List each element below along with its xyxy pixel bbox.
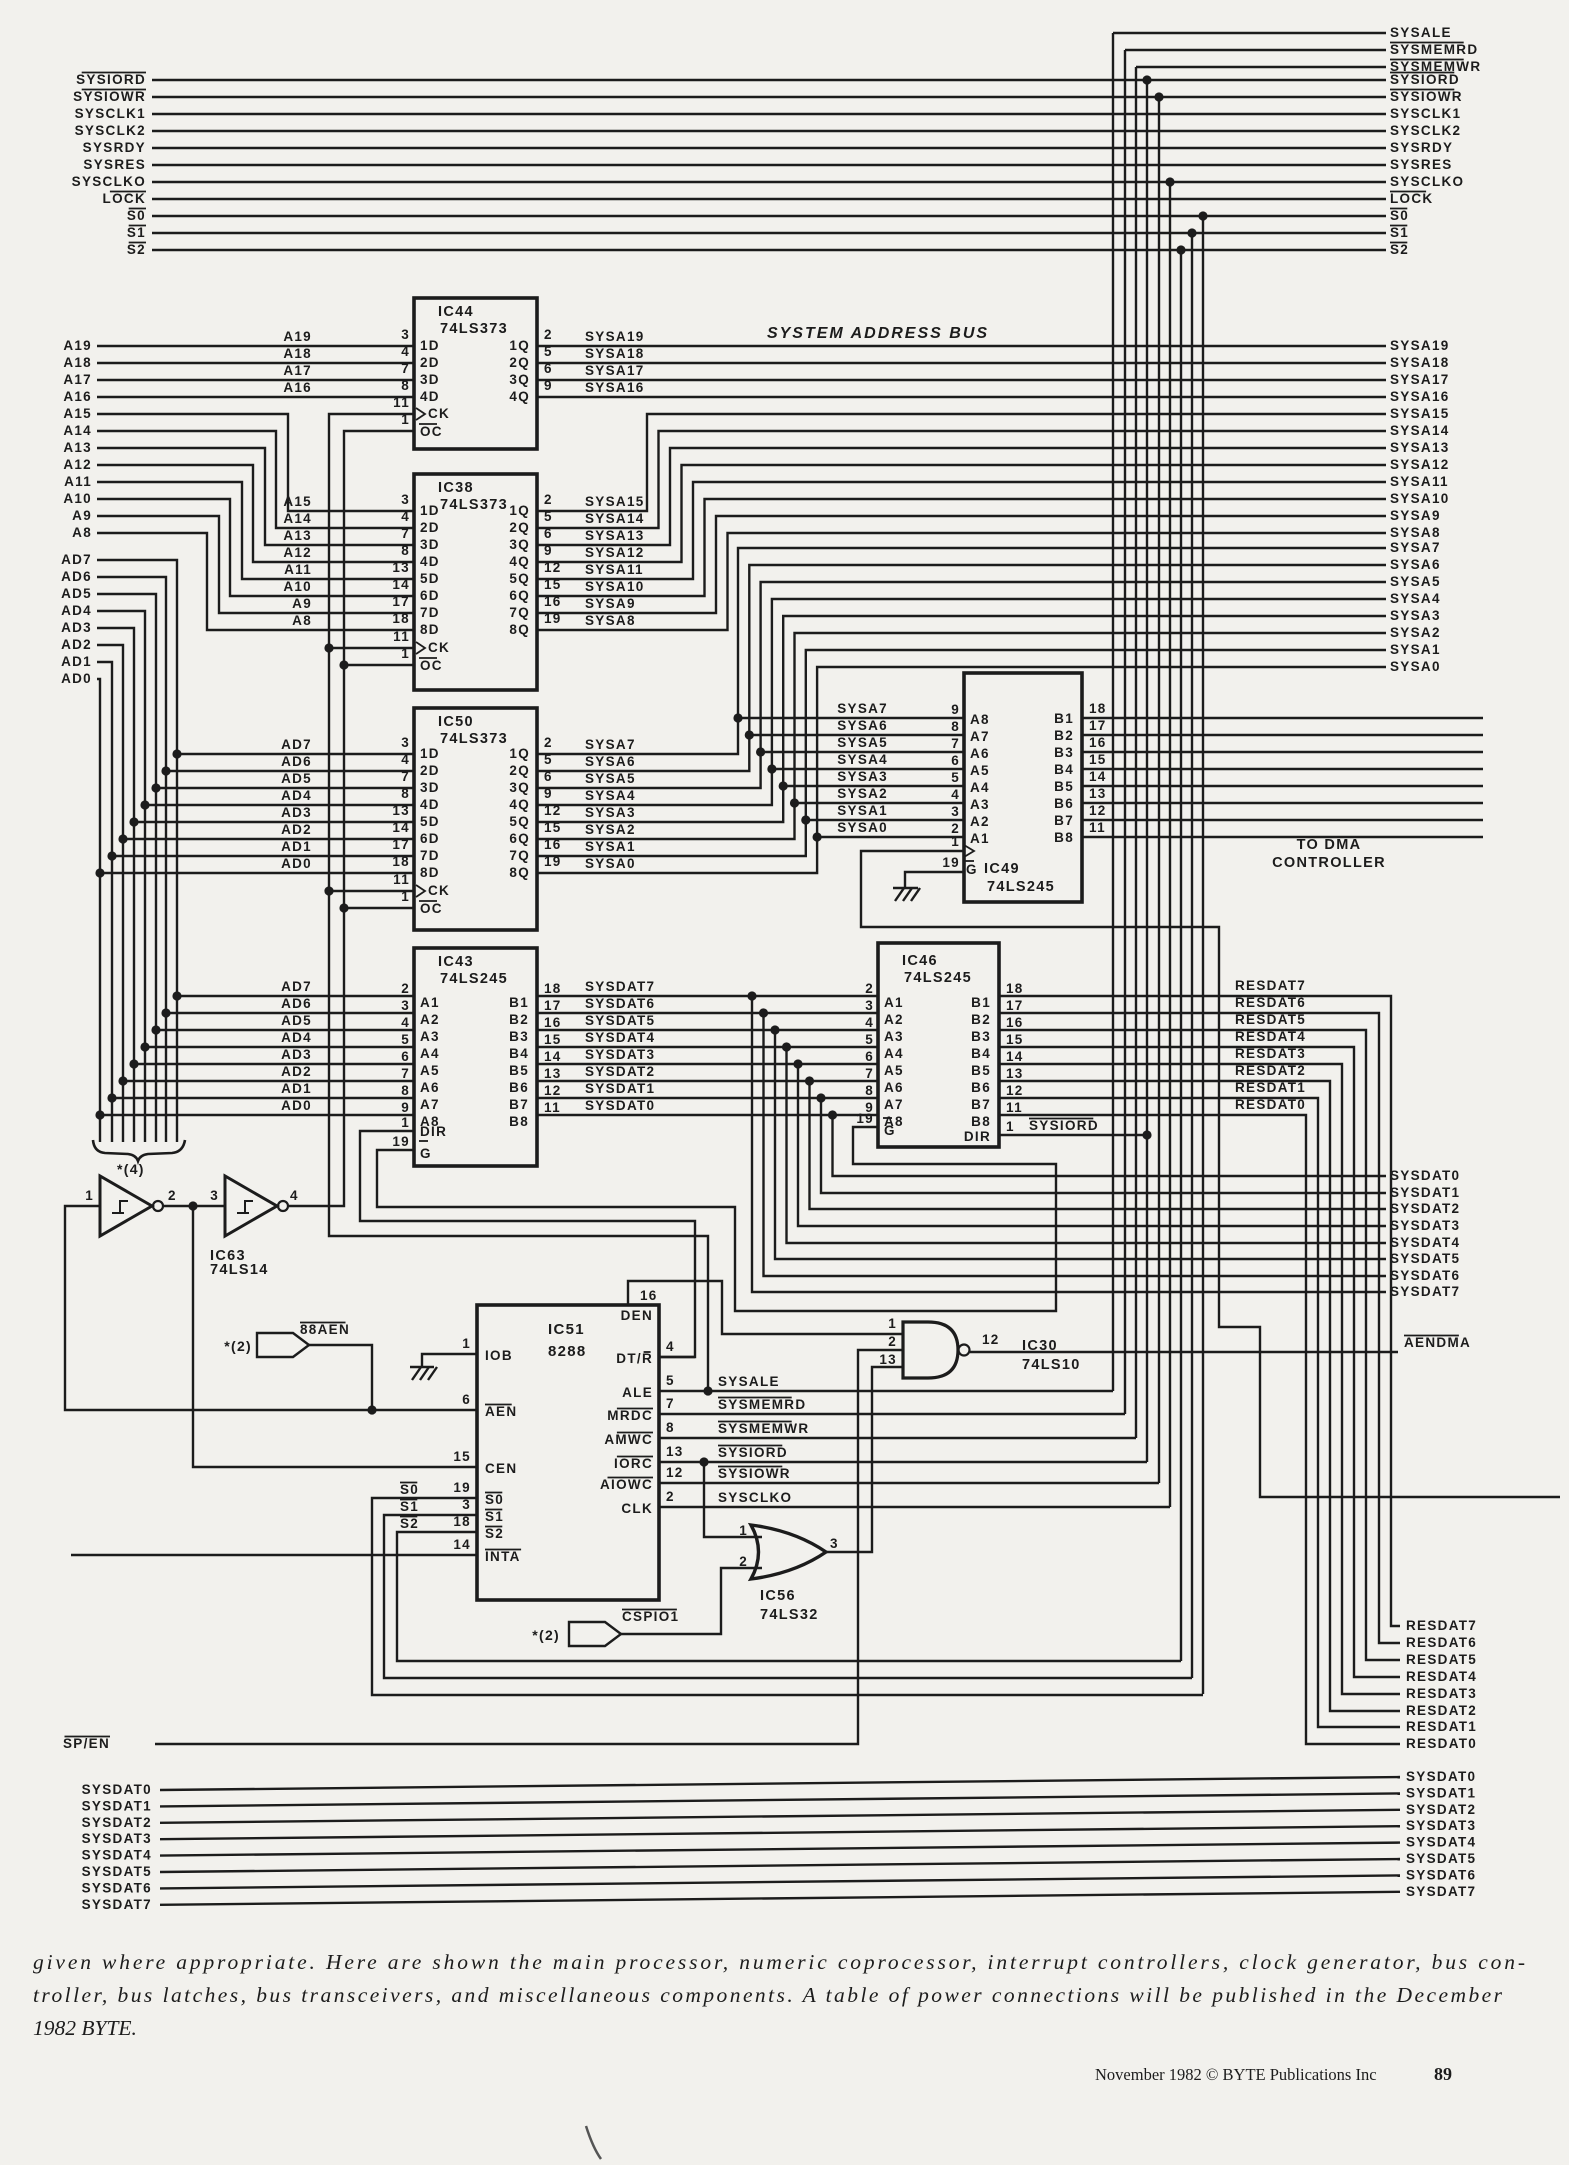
svg-text:B8: B8 [971,1114,991,1129]
svg-text:SYSDAT1: SYSDAT1 [585,1081,655,1096]
wire SYSA5 [537,582,1386,788]
wire IC49 B1 to DMA [1082,717,1483,719]
svg-text:15: 15 [1089,752,1107,767]
svg-text:SYSDAT2: SYSDAT2 [1406,1802,1476,1817]
wire SYSA11 [537,482,1386,579]
wire SYSDAT2 bottom bus [160,1810,1400,1823]
svg-text:B7: B7 [1054,813,1074,828]
svg-text:9: 9 [951,702,960,717]
svg-text:B2: B2 [1054,728,1074,743]
svg-text:B7: B7 [971,1097,991,1112]
svg-text:SYSALE: SYSALE [718,1374,780,1389]
svg-text:14: 14 [1089,769,1107,784]
wire SYSA18 [537,362,1386,364]
svg-text:OC: OC [420,658,443,673]
svg-text:B3: B3 [509,1029,529,1044]
wire SYSDAT6 bottom bus [160,1875,1400,1888]
svg-text:IC38: IC38 [438,480,474,496]
wire IC49 DIR long route [861,851,1560,1497]
wire SYSDAT0 [537,1114,878,1116]
svg-text:1Q: 1Q [509,503,530,518]
junction SYSA5 to IC49 [756,747,765,756]
svg-text:A19: A19 [63,338,92,353]
wire AD0 to IC50 [95,868,104,877]
svg-text:SYSDAT2: SYSDAT2 [82,1815,152,1830]
svg-text:13: 13 [1089,786,1107,801]
svg-text:SYSA12: SYSA12 [585,545,645,560]
svg-text:3: 3 [951,804,960,819]
svg-text:1D: 1D [420,338,440,353]
svg-text:RESDAT7: RESDAT7 [1406,1618,1477,1633]
wire S2 top bus [152,249,1386,251]
svg-text:A8: A8 [292,613,312,628]
wire SYSA4 [537,599,1386,805]
svg-text:SYSDAT6: SYSDAT6 [1390,1268,1460,1283]
svg-text:SYSA0: SYSA0 [585,856,636,871]
svg-text:AD0: AD0 [61,671,92,686]
svg-text:3: 3 [210,1188,219,1203]
wire IC49 G to ground [905,872,964,888]
svg-text:13: 13 [544,1066,562,1081]
svg-text:3: 3 [830,1536,839,1551]
wire SYSIOWR vertical [1158,97,1160,1483]
svg-text:S1: S1 [485,1509,504,1524]
svg-text:8: 8 [401,1083,410,1098]
svg-text:1982 BYTE.: 1982 BYTE. [33,2016,137,2040]
svg-text:16: 16 [544,1015,562,1030]
svg-text:2: 2 [865,981,874,996]
wire RESDAT3 [999,1064,1400,1694]
svg-text:A1: A1 [884,995,904,1010]
svg-text:AD1: AD1 [281,1081,312,1096]
svg-text:SYSDAT2: SYSDAT2 [585,1064,655,1079]
svg-text:*(2): *(2) [224,1338,252,1354]
wire AD2 to IC43 [118,1076,127,1085]
brace *(4) under AD bus [93,1140,185,1161]
junction SYSA0 to IC49 [813,832,822,841]
svg-text:1: 1 [951,834,960,849]
wire SYSA7 [537,548,1386,754]
svg-text:3: 3 [401,327,410,342]
svg-text:SYSDAT7: SYSDAT7 [1406,1884,1476,1899]
svg-text:11: 11 [393,629,410,644]
svg-text:5Q: 5Q [509,814,530,829]
wire SYSMEMRD (MRDC) [659,1413,1125,1415]
svg-text:SYSA0: SYSA0 [1390,659,1441,674]
wire RESDAT7 [999,996,1400,1626]
latch IC38 [414,474,537,690]
svg-text:SYSIORD: SYSIORD [76,72,146,87]
wire IC46 DIR = SYSIORD [999,1134,1147,1136]
wire SYSA0 [537,667,1386,873]
svg-text:INTA: INTA [485,1549,521,1564]
connector CSPIO1 [569,1622,621,1646]
svg-text:SYSDAT7: SYSDAT7 [82,1897,152,1912]
svg-text:AD2: AD2 [281,822,312,837]
svg-text:MRDC: MRDC [607,1408,653,1423]
svg-text:SYSA8: SYSA8 [585,613,636,628]
svg-text:SYSA5: SYSA5 [1390,574,1441,589]
svg-text:SYSDAT5: SYSDAT5 [82,1864,152,1879]
wire LOCK top bus [152,198,1386,200]
svg-text:8: 8 [401,378,410,393]
svg-text:SYSDAT6: SYSDAT6 [1406,1867,1476,1882]
svg-text:B5: B5 [971,1063,991,1078]
svg-text:A5: A5 [420,1063,440,1078]
svg-text:SYSA1: SYSA1 [1390,642,1441,657]
svg-text:RESDAT0: RESDAT0 [1406,1736,1477,1751]
svg-text:AD5: AD5 [281,771,312,786]
wire SYSALE (ALE) [659,1390,1113,1392]
svg-text:8: 8 [865,1083,874,1098]
svg-text:DEN: DEN [621,1308,653,1323]
svg-text:SYSA13: SYSA13 [585,528,645,543]
svg-text:S1: S1 [1390,225,1409,240]
svg-text:6: 6 [865,1049,874,1064]
svg-text:SYSIORD: SYSIORD [1390,72,1460,87]
wire IC49 B2 to DMA [1082,734,1483,736]
svg-text:19: 19 [856,1111,874,1126]
wire AD7 to IC43 [172,991,181,1000]
svg-text:IC43: IC43 [438,954,474,970]
wire CSPIO1 to OR pin2 [621,1568,762,1634]
wire AENDMA output [970,1351,1398,1353]
svg-text:SYSDAT2: SYSDAT2 [1390,1201,1460,1216]
svg-text:1D: 1D [420,746,440,761]
svg-text:A5: A5 [884,1063,904,1078]
wire SYSCLKO (CLK) [659,1506,1170,1508]
svg-text:8288: 8288 [548,1343,587,1360]
wire SYSDAT3 [537,1063,878,1065]
svg-text:11: 11 [1089,820,1106,835]
svg-text:74LS373: 74LS373 [440,497,508,513]
svg-text:SYSIORD: SYSIORD [1029,1118,1099,1133]
svg-text:A13: A13 [283,528,312,543]
svg-text:8Q: 8Q [509,622,530,637]
svg-text:A8: A8 [970,712,990,727]
svg-text:IC51: IC51 [548,1321,585,1338]
svg-text:LOCK: LOCK [103,191,146,206]
svg-text:AEN: AEN [485,1404,517,1419]
svg-text:12: 12 [544,1083,562,1098]
svg-text:B1: B1 [971,995,991,1010]
svg-text:18: 18 [544,981,562,996]
svg-text:SYSDAT0: SYSDAT0 [1390,1168,1460,1183]
svg-text:A7: A7 [420,1097,440,1112]
svg-text:8D: 8D [420,622,440,637]
transceiver IC46 [878,943,999,1147]
svg-text:8: 8 [666,1420,675,1435]
svg-text:A2: A2 [970,814,990,829]
svg-text:5: 5 [401,1032,410,1047]
svg-text:8: 8 [951,719,960,734]
svg-text:AIOWC: AIOWC [600,1477,653,1492]
svg-text:SYSA9: SYSA9 [1390,508,1441,523]
svg-text:RESDAT4: RESDAT4 [1406,1669,1477,1684]
svg-text:given where appropriate. Here: given where appropriate. Here are shown … [33,1950,1525,1974]
inverter IC63a [100,1176,152,1236]
svg-text:18: 18 [453,1514,471,1529]
svg-text:7D: 7D [420,848,440,863]
svg-text:DIR: DIR [964,1129,991,1144]
svg-text:SYSDAT1: SYSDAT1 [1390,1185,1460,1200]
svg-text:B3: B3 [971,1029,991,1044]
svg-text:SYSA10: SYSA10 [585,579,645,594]
wire RESDAT6 [999,1013,1400,1643]
svg-text:1Q: 1Q [509,338,530,353]
svg-text:S2: S2 [127,242,146,257]
svg-text:3D: 3D [420,780,440,795]
svg-text:13: 13 [879,1352,897,1367]
svg-text:12: 12 [1089,803,1107,818]
svg-text:A7: A7 [970,729,990,744]
svg-text:G: G [420,1146,432,1161]
svg-text:3: 3 [865,998,874,1013]
wire IC49 B5 to DMA [1082,785,1483,787]
svg-text:74LS245: 74LS245 [987,879,1055,895]
svg-text:SYSA7: SYSA7 [585,737,636,752]
junction SYSA6 to IC49 [745,730,754,739]
or-gate IC56 [751,1525,826,1579]
svg-text:18: 18 [1006,981,1024,996]
wire SYSA10 [537,499,1386,596]
wire DEN to IC30 pin1 [628,1281,903,1334]
wire IOB to ground [422,1354,477,1367]
svg-text:1: 1 [85,1188,94,1203]
svg-text:7Q: 7Q [509,605,530,620]
svg-text:RESDAT4: RESDAT4 [1235,1029,1306,1044]
svg-text:SYSDAT4: SYSDAT4 [1406,1835,1476,1850]
svg-text:17: 17 [1006,998,1024,1013]
svg-text:2Q: 2Q [509,520,530,535]
svg-text:1: 1 [888,1316,897,1331]
svg-text:SYSA12: SYSA12 [1390,457,1450,472]
svg-text:AD2: AD2 [61,637,92,652]
svg-text:6D: 6D [420,831,440,846]
wire DT/R stub [659,1356,695,1358]
wire CEN net [193,1206,477,1467]
svg-text:AD3: AD3 [281,805,312,820]
svg-text:AD0: AD0 [281,1098,312,1113]
wire AEN net [65,1206,477,1410]
wire SYSDAT4 bottom bus [160,1843,1400,1856]
svg-text:4: 4 [865,1015,874,1030]
svg-text:SYSA4: SYSA4 [585,788,636,803]
svg-text:19: 19 [453,1480,471,1495]
svg-text:15: 15 [453,1449,471,1464]
wire CK/ALE net vertical [329,414,708,1391]
svg-text:S2: S2 [1390,242,1409,257]
wire AD4 to IC50 [140,800,149,809]
wire SYSMEMRD vertical [1124,50,1126,1414]
svg-text:A10: A10 [63,491,92,506]
svg-text:4Q: 4Q [509,554,530,569]
svg-text:SYSA7: SYSA7 [1390,540,1441,555]
wire SYSIOWR (AIOWC) [659,1482,1159,1484]
wire SYSDAT4 [537,1046,878,1048]
svg-text:AD0: AD0 [281,856,312,871]
svg-text:CSPIO1: CSPIO1 [622,1609,679,1624]
wire SYSA2 [537,633,1386,839]
svg-text:SYSA2: SYSA2 [837,786,888,801]
svg-text:7Q: 7Q [509,848,530,863]
svg-text:7: 7 [951,736,960,751]
svg-text:14: 14 [544,1049,562,1064]
svg-text:74LS245: 74LS245 [440,971,508,987]
svg-text:SYSCLKO: SYSCLKO [1390,174,1464,189]
svg-text:7: 7 [401,1066,410,1081]
svg-text:SYSDAT3: SYSDAT3 [1390,1218,1460,1233]
svg-text:74LS373: 74LS373 [440,731,508,747]
wire S2 input [397,1532,1181,1661]
svg-text:B4: B4 [1054,762,1074,777]
svg-text:SYSDAT4: SYSDAT4 [82,1848,152,1863]
svg-text:SYSA4: SYSA4 [1390,591,1441,606]
svg-text:AD1: AD1 [281,839,312,854]
svg-text:74LS14: 74LS14 [210,1262,269,1278]
wire SYSA3 [537,616,1386,822]
wire SYSIORD top bus [152,79,1386,81]
svg-text:A15: A15 [63,406,92,421]
svg-text:SYSDAT3: SYSDAT3 [82,1831,152,1846]
svg-text:A14: A14 [283,511,312,526]
svg-text:AD2: AD2 [281,1064,312,1079]
bus controller IC51 [477,1305,659,1600]
wire S0 vertical [1202,216,1204,1694]
wire SYSDAT7 [537,995,878,997]
wire IC43 DIR to IC51 DT/R [360,1131,695,1357]
svg-text:7: 7 [401,361,410,376]
svg-text:RESDAT5: RESDAT5 [1406,1652,1477,1667]
svg-text:B4: B4 [509,1046,529,1061]
svg-text:SYSCLK2: SYSCLK2 [75,123,146,138]
wire SYSA9 [537,516,1386,613]
svg-text:15: 15 [544,1032,562,1047]
svg-text:A19: A19 [283,329,312,344]
svg-text:AD5: AD5 [281,1013,312,1028]
svg-text:A14: A14 [63,423,92,438]
svg-text:CK: CK [428,883,450,898]
svg-text:5Q: 5Q [509,571,530,586]
wire SYSA19 [537,345,1386,347]
svg-text:2: 2 [888,1334,897,1349]
svg-text:2: 2 [666,1489,675,1504]
wire SYSIOWR top bus [152,96,1386,98]
svg-text:SYSA6: SYSA6 [837,718,888,733]
svg-text:B6: B6 [1054,796,1074,811]
svg-text:*(2): *(2) [532,1627,560,1643]
svg-text:A3: A3 [420,1029,440,1044]
wire S0 top bus [152,215,1386,217]
svg-text:B7: B7 [509,1097,529,1112]
wire IC49 B3 to DMA [1082,751,1483,753]
svg-text:B8: B8 [1054,830,1074,845]
svg-text:SYSIORD: SYSIORD [718,1445,788,1460]
svg-text:SYSDAT5: SYSDAT5 [1406,1851,1476,1866]
wire SYSRES top bus [152,164,1386,166]
svg-text:A4: A4 [420,1046,440,1061]
svg-text:SYSRDY: SYSRDY [83,140,146,155]
wire S0 input [372,1498,1203,1695]
svg-text:AD7: AD7 [281,737,312,752]
svg-text:SYSA5: SYSA5 [585,771,636,786]
svg-text:3Q: 3Q [509,537,530,552]
svg-text:B2: B2 [509,1012,529,1027]
svg-text:SYSCLKO: SYSCLKO [72,174,146,189]
svg-text:A6: A6 [420,1080,440,1095]
svg-text:74LS10: 74LS10 [1022,1357,1081,1373]
svg-text:SYSDAT1: SYSDAT1 [1406,1785,1476,1800]
svg-text:A11: A11 [64,474,92,489]
wire SYSDAT0 bottom bus [160,1777,1400,1790]
svg-text:SYSMEMRD: SYSMEMRD [1390,42,1478,57]
svg-text:B1: B1 [509,995,529,1010]
svg-text:12: 12 [666,1465,684,1480]
svg-text:2D: 2D [420,520,440,535]
svg-text:SYSA17: SYSA17 [585,363,645,378]
svg-text:SYSRDY: SYSRDY [1390,140,1453,155]
svg-text:RESDAT3: RESDAT3 [1406,1686,1477,1701]
svg-text:74LS32: 74LS32 [760,1607,819,1623]
svg-text:A10: A10 [283,579,312,594]
svg-text:A18: A18 [63,355,92,370]
svg-text:B2: B2 [971,1012,991,1027]
wire AD3 to IC50 [129,817,138,826]
wire RESDAT2 [999,1081,1400,1711]
svg-text:3Q: 3Q [509,780,530,795]
svg-text:RESDAT0: RESDAT0 [1235,1097,1306,1112]
OC net pin stubs [344,664,414,666]
svg-text:SYSCLKO: SYSCLKO [718,1490,792,1505]
svg-text:SP/EN: SP/EN [63,1736,110,1751]
svg-text:OC: OC [420,424,443,439]
svg-text:74LS373: 74LS373 [440,321,508,337]
svg-text:CK: CK [428,406,450,421]
svg-text:7: 7 [865,1066,874,1081]
svg-text:S0: S0 [400,1482,419,1497]
svg-text:17: 17 [1089,718,1107,733]
svg-text:2: 2 [739,1554,748,1569]
svg-text:S2: S2 [400,1516,419,1531]
wire SYSDAT7 bottom bus [160,1892,1400,1905]
stray mark [586,2126,601,2159]
svg-text:11: 11 [393,872,410,887]
svg-text:B5: B5 [1054,779,1074,794]
svg-text:LOCK: LOCK [1390,191,1433,206]
svg-text:SYSA3: SYSA3 [837,769,888,784]
junction SYSA2 to IC49 [790,798,799,807]
svg-text:4: 4 [290,1188,299,1203]
svg-text:DT/R: DT/R [616,1351,653,1366]
connector 88AEN [257,1333,309,1357]
svg-text:B8: B8 [509,1114,529,1129]
svg-text:13: 13 [392,803,410,818]
svg-text:SYSA15: SYSA15 [1390,406,1450,421]
svg-text:5: 5 [865,1032,874,1047]
svg-text:AD4: AD4 [281,1030,312,1045]
svg-text:SYSDAT1: SYSDAT1 [82,1798,152,1813]
svg-text:A8: A8 [72,525,92,540]
svg-text:CLK: CLK [621,1501,653,1516]
svg-text:AMWC: AMWC [604,1432,653,1447]
svg-text:16: 16 [640,1288,658,1303]
wire SYSDAT1 bottom bus [160,1793,1400,1806]
svg-text:SYSA19: SYSA19 [1390,338,1450,353]
svg-text:S0: S0 [485,1492,504,1507]
svg-text:SYSA1: SYSA1 [585,839,636,854]
svg-text:3: 3 [401,735,410,750]
svg-text:18: 18 [392,611,410,626]
